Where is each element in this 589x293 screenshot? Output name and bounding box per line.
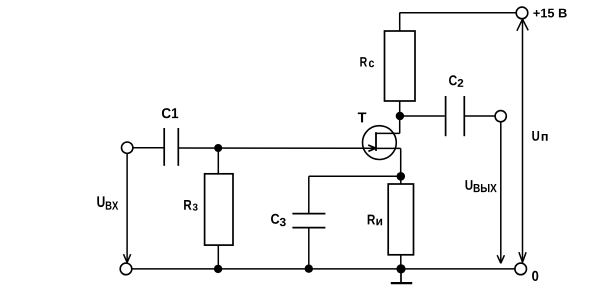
node output terminal circle — [495, 111, 506, 122]
capacitor C1 — [164, 128, 178, 166]
resistor Ri — [388, 184, 413, 255]
wire source junction to C3 branch — [309, 175, 401, 177]
wire Uvyh measurement line with arrow — [497, 123, 504, 264]
ground symbol — [391, 269, 412, 283]
label T — [358, 113, 367, 123]
transistor source lead — [376, 148, 401, 176]
wire Uvh measurement line with arrow — [124, 154, 131, 263]
node 0 terminal circle — [515, 263, 527, 275]
wire gate junction down to R3 — [217, 148, 219, 174]
wire C2 right plate to output terminal — [464, 115, 494, 117]
wire C3 bottom plate to ground rail — [308, 228, 310, 269]
wire Up supply measurement line with arrows both ends — [517, 19, 528, 262]
wire R3 bottom to ground rail — [217, 245, 219, 269]
wire Ri bottom to ground rail — [400, 255, 402, 269]
node C3 bottom junction dot — [305, 265, 313, 273]
wire from top rail down to Rc top — [399, 13, 401, 31]
capacitor C2 — [446, 96, 465, 136]
wire bottom ground rail — [132, 268, 515, 270]
label +15 V — [533, 9, 566, 18]
label Up — [532, 131, 547, 141]
label R3 — [184, 200, 198, 211]
label C2 — [449, 75, 463, 87]
label C3 — [271, 214, 286, 226]
wire source junction down to Ri — [400, 176, 402, 184]
wire down to C3 top plate — [308, 176, 310, 213]
label C1 — [162, 108, 178, 118]
transistor drain lead — [376, 132, 400, 134]
node R3 bottom junction dot — [214, 265, 222, 273]
node Ri bottom junction dot — [396, 264, 405, 273]
node gate junction dot — [214, 144, 222, 152]
wire top rail from Rc to +15V terminal — [400, 12, 517, 14]
transistor T body circle — [363, 126, 397, 160]
node bottom-left terminal circle — [120, 263, 132, 275]
label Uvh — [97, 196, 118, 209]
resistor R3 — [205, 174, 233, 245]
node source junction dot — [397, 172, 406, 181]
wire Rc bottom to drain node — [399, 101, 401, 133]
label 0 — [532, 271, 538, 281]
node input terminal circle — [122, 142, 133, 153]
node drain junction dot — [396, 112, 404, 120]
wire drain node to C2 left plate — [400, 115, 445, 117]
transistor gate arrow — [368, 145, 376, 151]
label Rc — [360, 57, 374, 67]
label Ri — [368, 215, 382, 226]
wire gate: C1 right plate to transistor gate — [178, 147, 376, 149]
label Uvyh — [466, 180, 497, 192]
transistor channel bar — [375, 132, 377, 151]
resistor Rc — [385, 31, 416, 101]
node +15V terminal circle — [516, 7, 528, 19]
capacitor C3 — [292, 214, 325, 228]
wire input terminal to C1 — [133, 147, 164, 149]
